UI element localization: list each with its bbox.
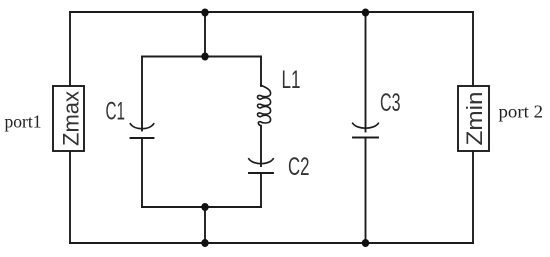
wire: L1 top lead	[260, 57, 262, 87]
svg-text:L1: L1	[282, 66, 301, 94]
wire: inner loop top edge	[142, 56, 261, 58]
wire: L1 to C2 lead	[260, 126, 262, 166]
wire: C3 bottom lead	[365, 138, 367, 244]
capacitor C2	[249, 159, 273, 164]
wire: right edge upper segment	[472, 12, 474, 86]
wire: top node to inner loop	[204, 12, 206, 57]
wire: C2 bottom lead	[260, 173, 262, 207]
junction node: inner loop top	[201, 53, 208, 61]
wire: C1 top lead	[141, 57, 143, 131]
capacitor C1	[130, 124, 153, 129]
junction node: bottom left	[201, 239, 208, 247]
junction node: bottom right	[362, 239, 369, 247]
svg-text:C2: C2	[288, 153, 310, 181]
wire: inner loop bottom edge	[142, 206, 261, 208]
junction node: top right	[362, 9, 369, 17]
impedance box Zmax	[53, 86, 84, 151]
wire: C3 top lead	[365, 12, 367, 132]
junction node: inner loop bottom	[201, 203, 208, 211]
wire: outer bottom edge	[70, 242, 473, 244]
svg-text:port1: port1	[5, 112, 42, 132]
wire: left edge upper segment	[69, 12, 71, 86]
impedance box Zmin	[458, 86, 489, 151]
wire: right edge lower segment	[472, 151, 474, 243]
svg-text:C3: C3	[380, 89, 401, 117]
svg-text:C1: C1	[106, 98, 126, 126]
wire: C1 bottom lead	[141, 138, 143, 207]
wire: left edge lower segment	[69, 151, 71, 243]
junction node: top left	[201, 9, 208, 17]
svg-text:port 2: port 2	[499, 102, 544, 122]
svg-text:Zmin: Zmin	[462, 92, 487, 146]
wire: inner loop bottom node to outer bottom	[204, 207, 206, 243]
wire: outer top edge	[70, 11, 473, 13]
svg-text:Zmax: Zmax	[59, 91, 84, 146]
inductor L1	[257, 85, 270, 126]
capacitor C3	[353, 123, 379, 128]
